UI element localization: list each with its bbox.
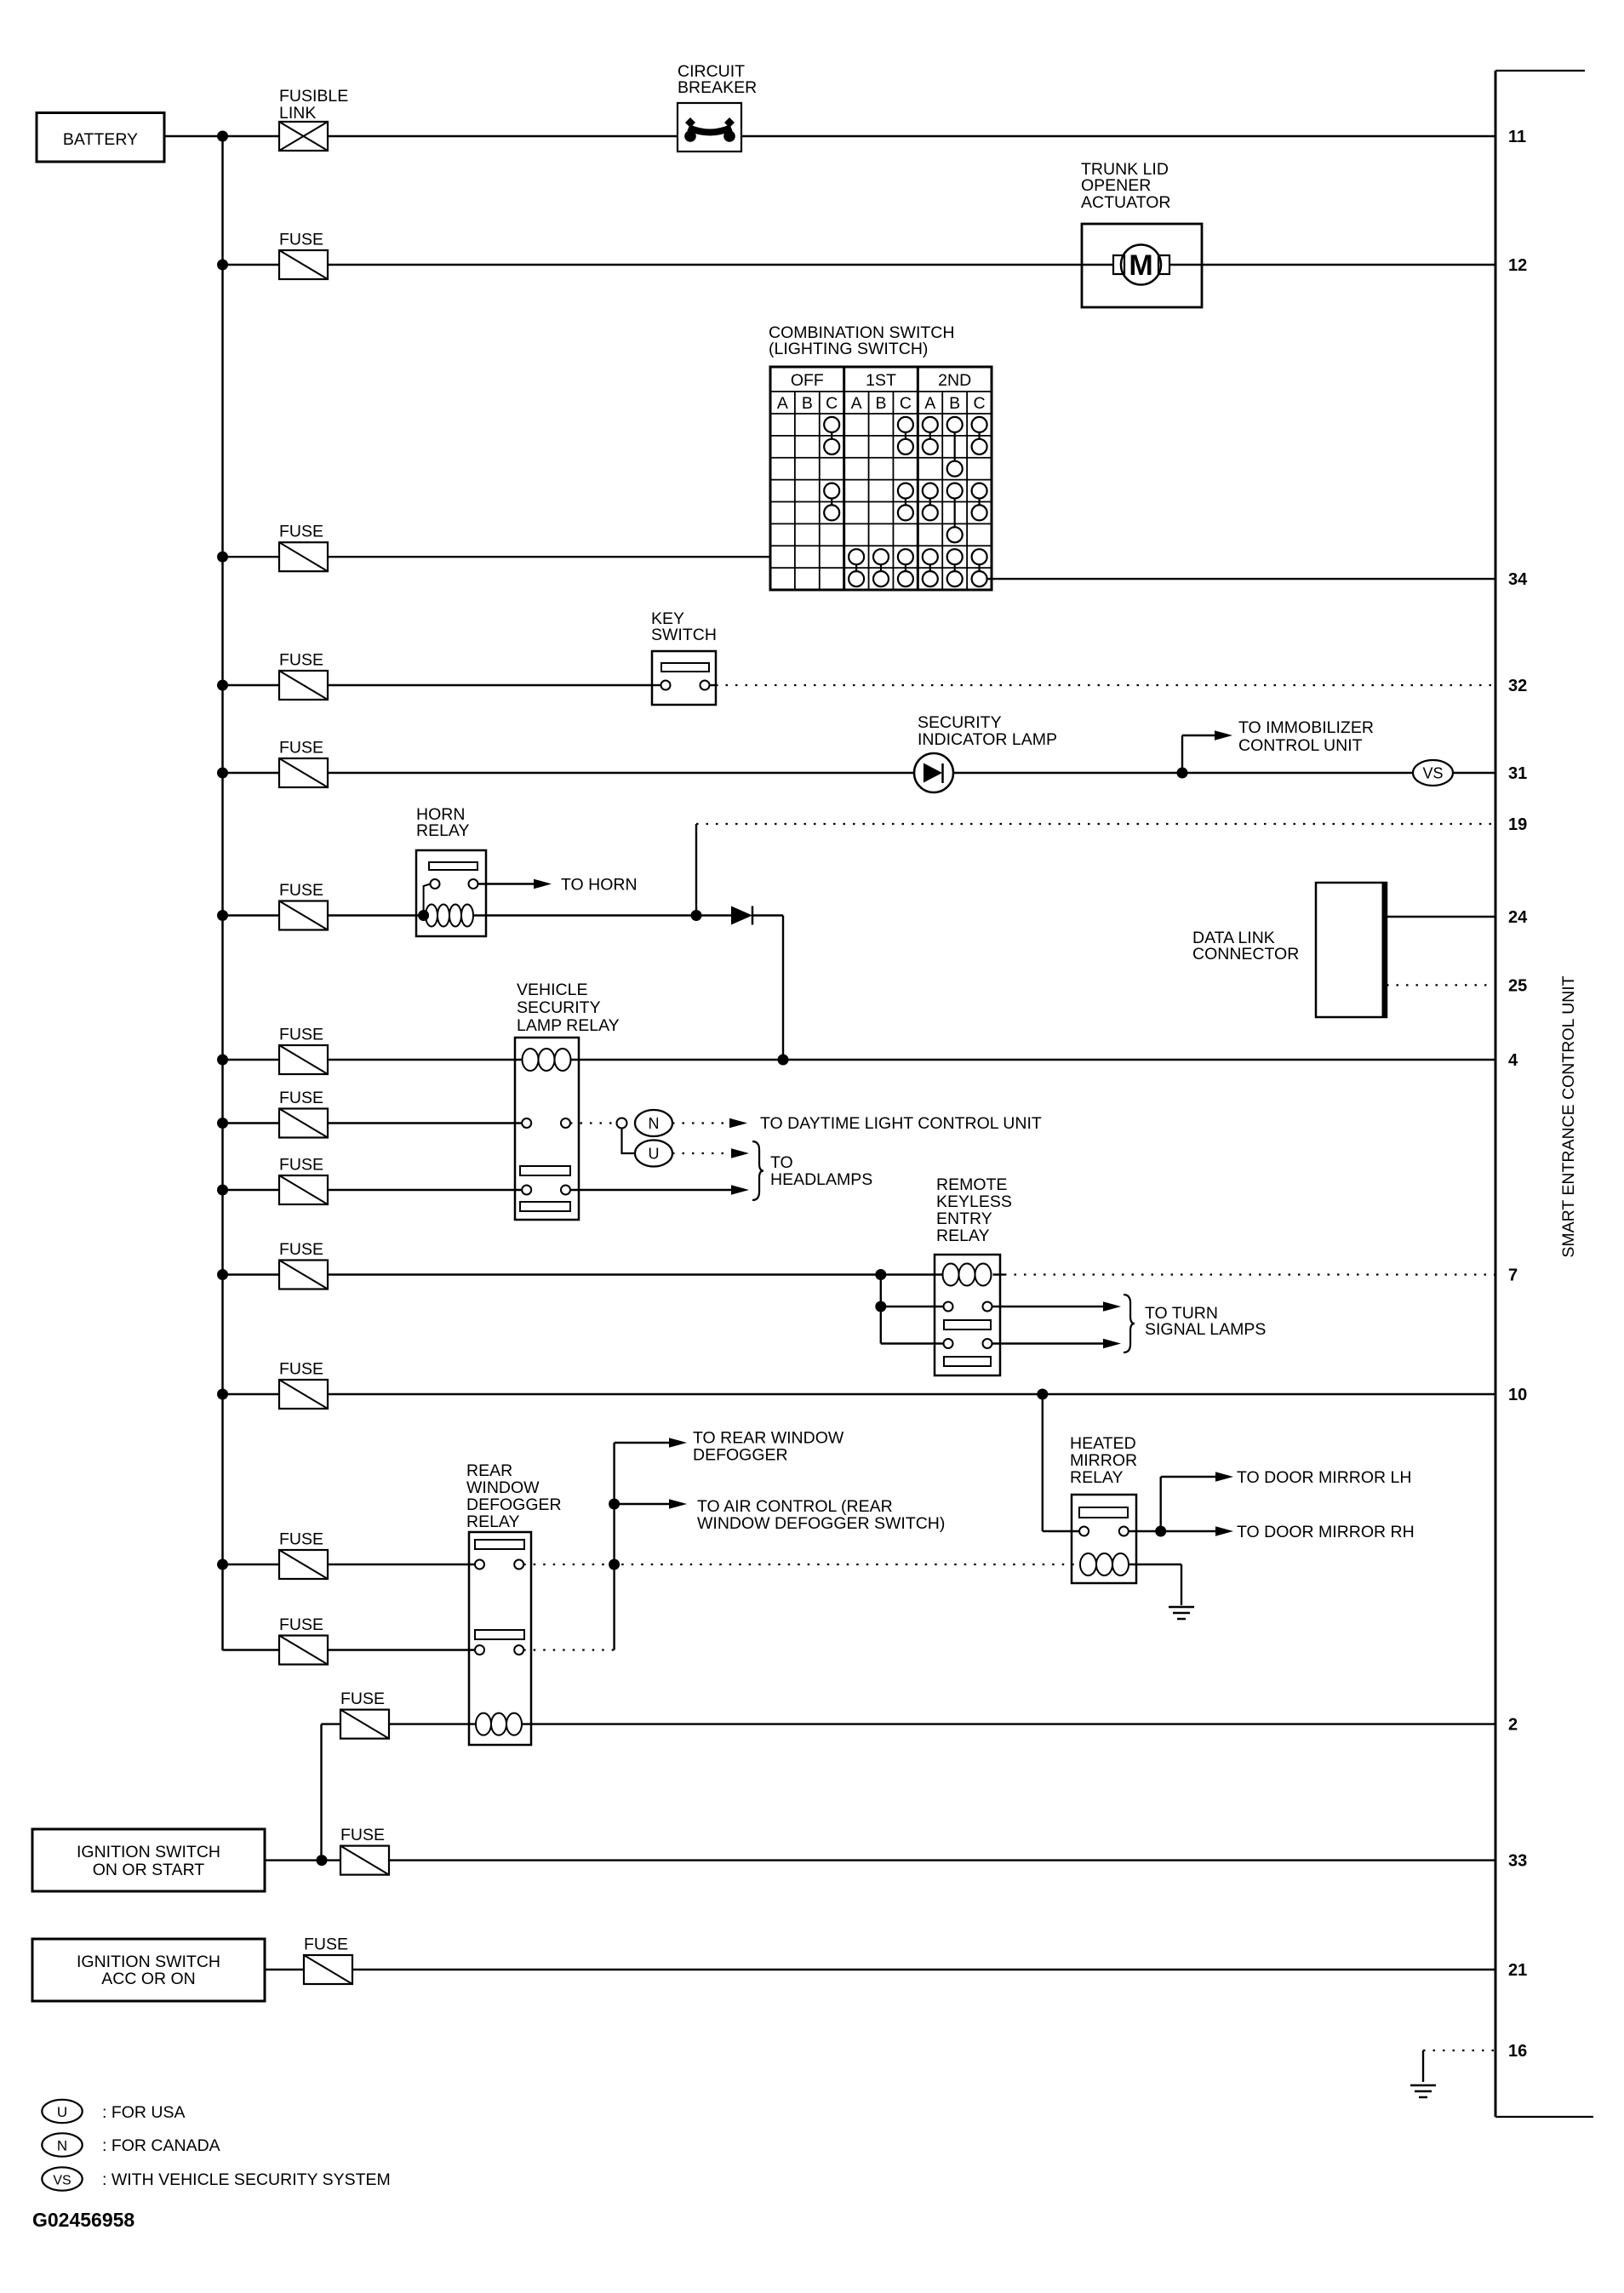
fuse xyxy=(304,1936,352,1985)
node U (for USA) xyxy=(635,1141,672,1167)
svg-text:RELAY: RELAY xyxy=(466,1512,520,1531)
svg-text:N: N xyxy=(57,2138,67,2154)
wire bus to fuse xyxy=(223,1564,280,1565)
svg-text:TO DOOR MIRROR RH: TO DOOR MIRROR RH xyxy=(1237,1523,1415,1541)
switch key switch S2 xyxy=(651,609,717,705)
svg-text:FUSE: FUSE xyxy=(279,231,323,249)
svg-text:MIRROR: MIRROR xyxy=(1070,1451,1137,1470)
svg-text:12: 12 xyxy=(1508,256,1527,275)
svg-text:7: 7 xyxy=(1508,1267,1518,1285)
wire fuse to defogger relay contact 1 xyxy=(328,1564,475,1565)
svg-text:LAMP RELAY: LAMP RELAY xyxy=(517,1016,620,1035)
wire junction down to heated mirror relay xyxy=(1042,1394,1044,1531)
fuse xyxy=(279,651,328,700)
legend VS with vehicle security system xyxy=(42,2167,390,2190)
svg-text:2: 2 xyxy=(1508,1716,1518,1735)
svg-text:TO DOOR MIRROR LH: TO DOOR MIRROR LH xyxy=(1237,1468,1411,1487)
svg-text:IGNITION SWITCH: IGNITION SWITCH xyxy=(77,1953,220,1971)
legend N for Canada xyxy=(42,2133,220,2156)
wire junction to pin 19 xyxy=(695,824,697,916)
svg-text:OFF: OFF xyxy=(791,371,824,390)
svg-text:C: C xyxy=(974,394,986,413)
fuse xyxy=(279,523,328,572)
svg-text:24: 24 xyxy=(1508,908,1528,927)
svg-text:34: 34 xyxy=(1508,570,1528,589)
wire diode to vehicle security lamp relay output xyxy=(752,914,783,916)
svg-text:FUSIBLE: FUSIBLE xyxy=(279,87,348,106)
svg-text:OPENER: OPENER xyxy=(1081,176,1151,195)
wire bus to fuse xyxy=(223,264,280,266)
junction xyxy=(418,910,429,921)
junction xyxy=(609,1499,620,1510)
svg-text:REMOTE: REMOTE xyxy=(936,1175,1007,1194)
svg-text:HEATED: HEATED xyxy=(1070,1434,1136,1453)
svg-text:SECURITY: SECURITY xyxy=(918,713,1002,732)
svg-text:HEADLAMPS: HEADLAMPS xyxy=(770,1170,872,1189)
relay remote keyless entry relay K3 xyxy=(935,1175,1012,1375)
svg-text:VS: VS xyxy=(53,2174,71,2188)
svg-text:ON OR START: ON OR START xyxy=(93,1861,205,1879)
fuse xyxy=(279,1240,328,1289)
brace to turn signal lamps xyxy=(1124,1295,1266,1352)
wire to air control xyxy=(615,1497,946,1533)
connector data link connector xyxy=(1192,883,1387,1017)
svg-text:TO AIR CONTROL (REAR: TO AIR CONTROL (REAR xyxy=(697,1497,893,1516)
svg-text:U: U xyxy=(57,2104,67,2120)
svg-text:FUSE: FUSE xyxy=(279,881,323,900)
wire bus to fuse xyxy=(223,1273,280,1275)
junction xyxy=(217,680,228,691)
wire battery to fusible link xyxy=(164,135,279,137)
wire to door mirror RH xyxy=(1215,1523,1415,1541)
svg-text:DEFOGGER: DEFOGGER xyxy=(466,1495,562,1514)
svg-text:11: 11 xyxy=(1508,128,1526,146)
wire to relay contact 2 xyxy=(881,1342,944,1344)
svg-text:21: 21 xyxy=(1508,1961,1527,1980)
switch combination switch (lighting switch) S1 xyxy=(769,323,992,590)
battery B1 xyxy=(37,113,164,163)
fuse xyxy=(279,1360,328,1410)
wire fuse to pin 10 xyxy=(328,1393,1495,1395)
junction xyxy=(317,1855,328,1866)
svg-text:FUSE: FUSE xyxy=(279,1530,323,1549)
fuse xyxy=(279,1615,328,1665)
svg-text:CONTROL UNIT: CONTROL UNIT xyxy=(1238,736,1363,755)
wire bus to fuse xyxy=(223,1393,280,1395)
svg-text:G02456958: G02456958 xyxy=(32,2209,134,2231)
svg-text:VEHICLE: VEHICLE xyxy=(517,981,587,999)
node VS (with vehicle security system) xyxy=(1413,760,1453,786)
wire bus to fuse xyxy=(223,914,280,916)
svg-text:A: A xyxy=(924,394,935,413)
wire contact to headlamps xyxy=(570,1185,749,1195)
wire ignition switch to fuse xyxy=(265,1969,304,1970)
junction xyxy=(217,1389,228,1400)
diode D1 xyxy=(731,906,752,925)
circuit breaker CB xyxy=(678,62,757,152)
fusible link FL xyxy=(279,87,348,151)
junction xyxy=(691,910,702,921)
wire fuse to defogger relay contact 2 xyxy=(328,1649,475,1650)
svg-text:VS: VS xyxy=(1422,765,1443,782)
source ignition switch ACC or ON xyxy=(32,1939,265,2001)
wire fuse to relay contact xyxy=(328,1122,522,1124)
relay rear window defogger relay K5 xyxy=(466,1461,562,1745)
wire ignition switch to fuse xyxy=(265,1859,340,1861)
svg-text:REAR: REAR xyxy=(466,1461,512,1480)
wire bus to fuse xyxy=(223,1189,280,1191)
wire bus to fuse xyxy=(223,1059,280,1061)
wire relay coil to pin 4 xyxy=(571,1059,1496,1061)
junction xyxy=(875,1301,886,1312)
svg-text:RELAY: RELAY xyxy=(416,821,470,840)
svg-text:FUSE: FUSE xyxy=(279,1089,323,1107)
svg-text:16: 16 xyxy=(1508,2042,1527,2061)
wire data link connector to pin 25 xyxy=(1387,984,1495,986)
svg-text:FUSE: FUSE xyxy=(340,1690,385,1708)
svg-text:SECURITY: SECURITY xyxy=(517,998,601,1017)
svg-text:M: M xyxy=(1129,249,1152,282)
wire fuse to security indicator lamp xyxy=(328,772,914,774)
svg-text:FUSE: FUSE xyxy=(340,1826,385,1844)
svg-text:25: 25 xyxy=(1508,976,1527,995)
wire defogger relay coil to pin 2 xyxy=(522,1723,1495,1724)
fuse xyxy=(279,739,328,788)
svg-text:TO HORN: TO HORN xyxy=(561,876,638,895)
fuse xyxy=(279,231,328,280)
svg-text:ACC OR ON: ACC OR ON xyxy=(101,1970,196,1988)
svg-text:FUSE: FUSE xyxy=(279,1156,323,1175)
junction xyxy=(217,768,228,779)
wire fuse to relay contact xyxy=(328,1189,522,1191)
svg-text:DEFOGGER: DEFOGGER xyxy=(693,1446,788,1465)
svg-text:SMART ENTRANCE CONTROL UNIT: SMART ENTRANCE CONTROL UNIT xyxy=(1559,975,1578,1257)
node N (for Canada) xyxy=(635,1110,672,1136)
wire ignition branch to fuse xyxy=(322,1723,341,1724)
svg-text:FUSE: FUSE xyxy=(279,1026,323,1044)
wire contact to door mirrors xyxy=(1129,1530,1217,1532)
junction xyxy=(217,260,228,271)
wire circuit breaker to pin 11 xyxy=(741,135,1495,137)
wire data link connector to pin 24 xyxy=(1387,916,1495,918)
svg-text:B: B xyxy=(949,394,960,413)
svg-text:B: B xyxy=(802,394,813,413)
wire to relay contact 1 xyxy=(881,1306,944,1307)
junction xyxy=(217,1185,228,1196)
source ignition switch ON or START xyxy=(32,1829,265,1891)
wire lamp to junction xyxy=(953,772,1413,774)
wire bus to fuse xyxy=(223,1122,280,1124)
svg-text:RELAY: RELAY xyxy=(936,1227,990,1245)
wire contact 2 to turn signal lamps xyxy=(992,1339,1122,1349)
wire fuse to key switch xyxy=(328,684,652,686)
svg-text:FUSE: FUSE xyxy=(304,1936,348,1954)
wire actuator to pin 12 xyxy=(1202,264,1495,266)
svg-text:FUSE: FUSE xyxy=(279,1615,323,1634)
svg-text:FUSE: FUSE xyxy=(279,1360,323,1379)
motor trunk lid opener actuator M1 xyxy=(1081,160,1202,307)
wire bus to fuse xyxy=(223,1649,280,1650)
wire fuse to defogger relay coil xyxy=(388,1723,477,1724)
svg-text:LINK: LINK xyxy=(279,104,316,123)
wire U to headlamps xyxy=(672,1148,749,1158)
svg-text:(LIGHTING SWITCH): (LIGHTING SWITCH) xyxy=(769,340,928,358)
wire to relay contact xyxy=(1043,1530,1079,1532)
junction xyxy=(217,552,228,563)
junction xyxy=(778,1055,789,1066)
svg-text:CONNECTOR: CONNECTOR xyxy=(1192,945,1299,964)
svg-text:: FOR USA: : FOR USA xyxy=(102,2103,186,2122)
wire N to daytime light control unit xyxy=(672,1114,1042,1133)
junction xyxy=(875,1269,886,1280)
fuse xyxy=(279,1089,328,1138)
node connector xyxy=(617,1118,627,1129)
svg-text:FUSE: FUSE xyxy=(279,739,323,758)
wire horn relay coil to diode xyxy=(473,914,731,916)
wire heated mirror relay coil to ground xyxy=(1129,1564,1181,1605)
wire down to ignition switch feed xyxy=(320,1724,322,1861)
svg-text:KEYLESS: KEYLESS xyxy=(936,1192,1012,1211)
svg-text:INDICATOR LAMP: INDICATOR LAMP xyxy=(918,730,1057,749)
svg-text:A: A xyxy=(777,394,788,413)
connector SMART ENTRANCE CONTROL UNIT xyxy=(1495,71,1593,2117)
wire to immobilizer control unit xyxy=(1182,718,1374,773)
wire fuse to vehicle security lamp relay coil xyxy=(328,1059,523,1061)
svg-text:BREAKER: BREAKER xyxy=(678,78,757,97)
wire key switch to pin 32 xyxy=(710,684,717,686)
ground xyxy=(1169,1607,1194,1619)
fuse xyxy=(279,1156,328,1205)
svg-text:: FOR CANADA: : FOR CANADA xyxy=(102,2136,220,2155)
svg-text:ENTRY: ENTRY xyxy=(936,1209,992,1228)
svg-text:WINDOW DEFOGGER SWITCH): WINDOW DEFOGGER SWITCH) xyxy=(697,1514,945,1533)
svg-text:N: N xyxy=(649,1115,660,1132)
junction xyxy=(609,1559,620,1570)
lamp security indicator lamp (LED) xyxy=(914,713,1057,792)
ground xyxy=(1410,2085,1436,2097)
svg-text:FUSE: FUSE xyxy=(279,523,323,541)
svg-text:BATTERY: BATTERY xyxy=(63,130,138,149)
wire fuse to trunk lid opener actuator xyxy=(328,264,1082,266)
wire fuse to horn relay xyxy=(328,914,424,916)
wire contact 1 to heated mirror relay coil xyxy=(523,1564,1080,1565)
wire fusible link to circuit breaker xyxy=(328,135,678,137)
svg-text:SIGNAL LAMPS: SIGNAL LAMPS xyxy=(1145,1320,1266,1339)
svg-text:19: 19 xyxy=(1508,815,1527,834)
wire to rear window defogger xyxy=(615,1429,844,1465)
wire to horn xyxy=(478,876,638,895)
wire battery feed bus xyxy=(221,136,224,1650)
svg-text:C: C xyxy=(826,394,838,413)
svg-text:U: U xyxy=(649,1146,660,1163)
svg-text:WINDOW: WINDOW xyxy=(466,1478,540,1497)
wire bus to fuse xyxy=(223,772,280,774)
svg-text:10: 10 xyxy=(1508,1386,1527,1404)
brace to headlamps xyxy=(752,1141,872,1200)
svg-text:ACTUATOR: ACTUATOR xyxy=(1081,193,1170,212)
svg-text:B: B xyxy=(875,394,886,413)
wire bus to fuse xyxy=(223,556,280,558)
fuse xyxy=(279,881,328,930)
svg-text:2ND: 2ND xyxy=(938,371,971,390)
relay vehicle security lamp relay K2 xyxy=(515,981,620,1220)
svg-text:: WITH VEHICLE SECURITY SYSTEM: : WITH VEHICLE SECURITY SYSTEM xyxy=(102,2170,391,2189)
junction xyxy=(217,1118,228,1129)
junction xyxy=(1177,768,1188,779)
svg-text:RELAY: RELAY xyxy=(1070,1468,1124,1487)
junction xyxy=(1155,1526,1166,1537)
svg-text:TO DAYTIME LIGHT CONTROL UNIT: TO DAYTIME LIGHT CONTROL UNIT xyxy=(760,1114,1042,1133)
wire contact 2 up to branches xyxy=(523,1649,614,1650)
wire bus to fuse xyxy=(223,684,280,686)
fuse xyxy=(279,1026,328,1075)
wire fuse to pin 33 xyxy=(388,1859,1495,1861)
fuse xyxy=(340,1690,389,1739)
svg-text:IGNITION SWITCH: IGNITION SWITCH xyxy=(77,1843,220,1861)
fuse xyxy=(279,1530,328,1580)
svg-text:FUSE: FUSE xyxy=(279,1240,323,1259)
junction xyxy=(217,131,228,142)
relay horn relay K1 xyxy=(416,805,486,936)
svg-text:SWITCH: SWITCH xyxy=(651,626,717,644)
svg-text:TO: TO xyxy=(770,1153,793,1172)
legend U for USA xyxy=(42,2100,185,2123)
junction xyxy=(1037,1389,1048,1400)
wire pin 16 to ground xyxy=(1423,2050,1495,2082)
wire fuse to combination switch xyxy=(328,556,770,558)
junction xyxy=(217,1269,228,1280)
wire fuse to pin 21 xyxy=(352,1969,1495,1970)
wire contact 1 to turn signal lamps xyxy=(992,1301,1122,1312)
svg-text:33: 33 xyxy=(1508,1852,1527,1871)
svg-text:TO IMMOBILIZER: TO IMMOBILIZER xyxy=(1238,718,1374,737)
wire VS to pin 31 xyxy=(1453,772,1495,774)
svg-text:A: A xyxy=(851,394,862,413)
svg-text:C: C xyxy=(900,394,912,413)
svg-text:4: 4 xyxy=(1508,1051,1518,1070)
svg-text:32: 32 xyxy=(1508,677,1527,695)
wire relay coil to pin 7 xyxy=(993,1273,1005,1275)
svg-text:31: 31 xyxy=(1508,764,1527,783)
wire fuse to remote keyless entry relay xyxy=(328,1273,943,1275)
wire to door mirror LH xyxy=(1161,1468,1412,1531)
fuse xyxy=(340,1826,389,1875)
wire connector circle down to U xyxy=(622,1128,637,1153)
junction xyxy=(217,1559,228,1570)
wire contact to connector circle xyxy=(570,1122,617,1124)
junction xyxy=(217,1055,228,1066)
wire combination switch to pin 34 xyxy=(987,578,1495,580)
svg-text:1ST: 1ST xyxy=(866,371,896,390)
relay heated mirror relay K4 xyxy=(1070,1434,1137,1583)
wire junction down to contacts xyxy=(880,1275,882,1344)
svg-text:FUSE: FUSE xyxy=(279,651,323,670)
svg-text:TO REAR WINDOW: TO REAR WINDOW xyxy=(693,1429,844,1448)
junction xyxy=(217,910,228,921)
